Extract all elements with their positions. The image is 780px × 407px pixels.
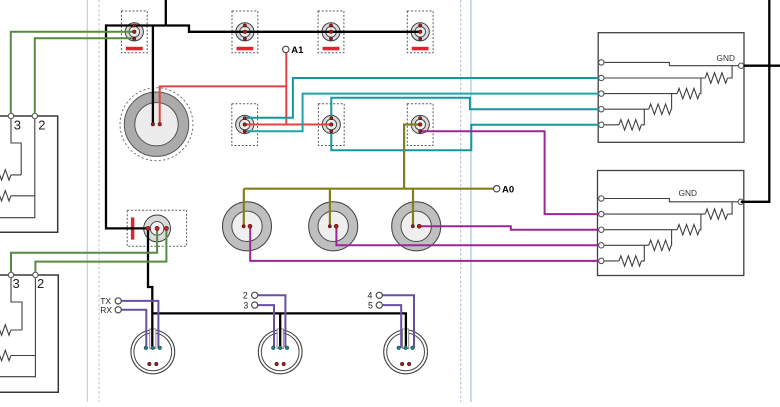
svg-text:A0: A0 (502, 185, 514, 196)
svg-text:2: 2 (243, 291, 248, 301)
breadboard rail guide 1 (86, 0, 88, 402)
pins M1 (146, 226, 169, 230)
motor MOT3 (384, 329, 428, 374)
wire purple D3 to MOT2 (258, 305, 274, 348)
wire green M1 center to RN4 pin3 (11, 228, 157, 272)
svg-text:2: 2 (38, 117, 45, 132)
IR receiver module M1 (127, 210, 186, 246)
wire olive A0 bus (244, 188, 494, 190)
piezo buzzer BZ1 (121, 11, 147, 53)
resistor network RN2 (598, 171, 744, 276)
wire purple D2 to MOT2 (258, 295, 286, 348)
wire olive POT3 branch (412, 189, 414, 227)
node D4 (368, 291, 383, 301)
motor MOT1 (131, 329, 175, 374)
pins BZ3 (329, 24, 333, 40)
pins MOT1 (144, 346, 161, 366)
resistor network RN3 (0, 113, 58, 232)
wire purple RX to MOT1 (121, 310, 146, 348)
wire black stub to top edge (165, 0, 167, 26)
wire black M1 to MOT1 (148, 228, 152, 347)
wire green BZ1 bottom to RN3 pin2 (35, 38, 135, 114)
svg-text:5: 5 (368, 300, 373, 310)
pins PS3 (418, 117, 422, 133)
svg-text:GND: GND (679, 188, 697, 198)
wire purple D5 to MOT3 (383, 305, 402, 348)
pins MOT3 (397, 346, 414, 366)
piezo sensor PS1 (232, 104, 258, 146)
pins BZ1 (133, 24, 137, 40)
breadboard rail guide 3 (460, 0, 462, 402)
pins SP1 (151, 123, 161, 126)
pins BZ4 (418, 24, 422, 40)
wire olive POT1 branch (243, 189, 245, 227)
wire red to speaker (160, 86, 287, 124)
wire black speaker drop (152, 26, 154, 125)
wire teal PS2 bottom to RN1 pin5 (331, 125, 598, 150)
pins BZ2 (243, 24, 247, 40)
svg-text:4: 4 (368, 291, 373, 301)
piezo buzzer BZ2 (232, 11, 258, 53)
node RX (100, 305, 121, 315)
wire olive POT2 branch (329, 189, 331, 227)
motor MOT2 (258, 329, 302, 374)
svg-text:A1: A1 (291, 45, 304, 56)
potentiometer POT1 (223, 202, 272, 251)
svg-text:2: 2 (37, 276, 44, 291)
wire red PS1 to PS2 (245, 124, 332, 126)
piezo buzzer BZ4 (407, 11, 433, 53)
resistor network RN4 (0, 272, 58, 392)
pins PS1 (243, 117, 247, 133)
wire magenta PS3 to RN2 pin2 (420, 131, 598, 214)
node D2 (243, 291, 258, 301)
node D5 (368, 300, 382, 310)
node TX (100, 296, 121, 306)
svg-text:3: 3 (13, 276, 20, 291)
wire teal PS1 top to RN1 pin2 (245, 78, 599, 118)
pins PS2 (330, 117, 334, 133)
wire black top bus (106, 26, 420, 32)
wire teal PS2 top to RN1 pin4 (331, 98, 598, 118)
piezo sensor PS2 (318, 104, 344, 146)
pins POT3 (411, 224, 421, 228)
breadboard rail guide 4 (470, 0, 472, 402)
svg-text:3: 3 (243, 300, 248, 310)
wire green M1 right to RN4 pin2 (35, 228, 166, 272)
svg-text:3: 3 (14, 117, 21, 132)
svg-text:GND: GND (717, 53, 735, 63)
wire magenta POT1 to RN2 pin5 (250, 226, 598, 261)
potentiometer POT3 (392, 202, 441, 251)
wire magenta POT2 to RN2 pin4 (336, 226, 598, 245)
node D3 (243, 300, 257, 310)
wire black GND bus right (741, 0, 780, 202)
wire olive PS3 branch (404, 125, 420, 189)
wire black left drop to M1 (106, 24, 148, 228)
speaker SP1 (120, 88, 193, 161)
node A1 (283, 45, 305, 56)
wire purple D4 to MOT3 (383, 295, 415, 348)
svg-text:RX: RX (100, 305, 112, 315)
wire teal PS1 bottom to RN1 pin3 (245, 94, 599, 132)
piezo buzzer BZ3 (318, 11, 344, 53)
pins POT2 (328, 224, 338, 228)
node A0 (494, 185, 515, 196)
wire magenta POT3 to RN2 pin3 (420, 226, 599, 229)
breadboard rail guide 2 (98, 0, 100, 402)
piezo sensor PS3 (407, 104, 433, 146)
wire green BZ1 center to RN3 pin3 (11, 32, 135, 114)
pins MOT2 (272, 346, 289, 366)
resistor network RN1 (598, 33, 744, 143)
pins POT1 (242, 224, 252, 228)
wire red A1 drop (285, 53, 287, 125)
wire black motor bus (152, 313, 406, 347)
wire purple TX to MOT1 (121, 301, 158, 348)
potentiometer POT2 (309, 202, 358, 251)
